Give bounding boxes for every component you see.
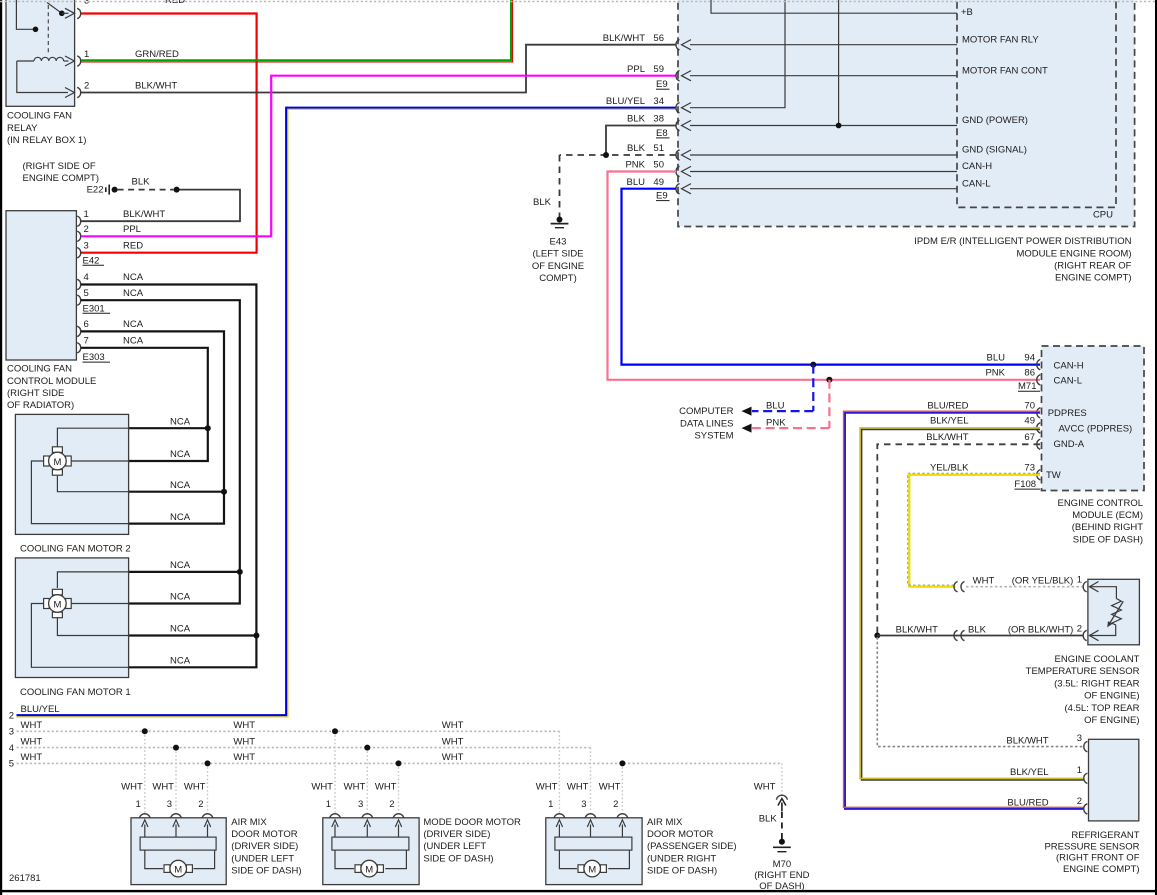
svg-text:CAN-H: CAN-H xyxy=(1054,360,1084,371)
svg-text:E43: E43 xyxy=(550,236,567,247)
svg-text:NCA: NCA xyxy=(123,319,144,330)
wire GND (POWER) xyxy=(682,115,1028,131)
air mix passenger caption xyxy=(647,817,737,877)
relay pin 1 arc xyxy=(77,56,81,66)
svg-text:SIDE OF DASH): SIDE OF DASH) xyxy=(423,853,493,864)
svg-text:WHT: WHT xyxy=(442,736,464,747)
svg-text:(BEHIND RIGHT: (BEHIND RIGHT xyxy=(1072,522,1143,533)
svg-text:NCA: NCA xyxy=(170,480,191,491)
ECM pin 86 arc xyxy=(1037,375,1041,385)
svg-text:3: 3 xyxy=(9,727,14,738)
wire PPL module pin2 to IPDM pin59 xyxy=(81,76,676,237)
ECT pin 1 arc xyxy=(1083,582,1087,592)
svg-text:CONTROL MODULE: CONTROL MODULE xyxy=(7,376,96,387)
svg-text:(RIGHT FRONT OF: (RIGHT FRONT OF xyxy=(1056,853,1140,864)
svg-text:BLU: BLU xyxy=(766,401,785,412)
svg-text:WHT: WHT xyxy=(21,736,43,747)
wire BLK dashed to ground M70 xyxy=(781,812,783,840)
wire MOTOR FAN RLY xyxy=(682,34,1040,50)
svg-text:2: 2 xyxy=(613,799,618,810)
svg-text:PDPRES: PDPRES xyxy=(1048,408,1087,419)
svg-text:GND (POWER): GND (POWER) xyxy=(962,115,1028,126)
wire WHT drop row5 to air mix motor passenger pin2 xyxy=(621,763,623,812)
svg-text:M: M xyxy=(174,865,182,876)
ECT caption xyxy=(1026,654,1140,726)
connector E303 label xyxy=(83,352,111,363)
svg-text:WHT: WHT xyxy=(233,736,255,747)
wire BLK dashed from E22 xyxy=(118,189,174,191)
svg-text:(PASSENGER SIDE): (PASSENGER SIDE) xyxy=(647,841,737,852)
relay coil to pin2 wire xyxy=(17,61,75,98)
svg-text:1: 1 xyxy=(1077,574,1082,585)
svg-text:(OR YEL/BLK): (OR YEL/BLK) xyxy=(1012,575,1074,586)
svg-text:E42: E42 xyxy=(83,255,100,266)
svg-text:E9: E9 xyxy=(656,191,668,202)
svg-text:51: 51 xyxy=(653,143,664,154)
svg-text:1: 1 xyxy=(84,209,89,220)
motor2 internal wires xyxy=(31,428,128,523)
ECM pin number labels xyxy=(1024,352,1035,473)
connector F108 label xyxy=(1014,479,1040,490)
svg-text:COOLING FAN MOTOR 2: COOLING FAN MOTOR 2 xyxy=(20,544,131,555)
wire labels WHT above mode door motor xyxy=(311,781,396,792)
svg-text:BLK/YEL: BLK/YEL xyxy=(1010,767,1049,778)
page border right xyxy=(1155,0,1157,895)
svg-text:SIDE OF DASH): SIDE OF DASH) xyxy=(1073,534,1143,545)
svg-text:NCA: NCA xyxy=(123,288,144,299)
mode door motor pin arcs xyxy=(330,814,405,819)
svg-text:BLU/YEL: BLU/YEL xyxy=(21,704,60,715)
splice dot xyxy=(174,187,180,193)
svg-text:E9: E9 xyxy=(656,79,668,90)
svg-text:261781: 261781 xyxy=(9,873,41,884)
svg-text:GND-A: GND-A xyxy=(1054,439,1085,450)
wire BLU/RED ECM pin70 to refrigerant sensor pin2 xyxy=(844,411,1084,809)
svg-text:BLK/WHT: BLK/WHT xyxy=(135,81,177,92)
relay pin 3 arc xyxy=(77,8,81,18)
ground E43 symbol xyxy=(551,217,569,228)
air mix driver motor symbol xyxy=(164,860,192,877)
svg-text:WHT: WHT xyxy=(21,720,43,731)
air mix passenger resistor bar xyxy=(555,837,632,850)
mode door motor symbol xyxy=(355,860,383,877)
svg-text:NCA: NCA xyxy=(170,624,191,635)
IPDM pin number labels xyxy=(653,33,664,188)
wire PNK dashed to computer data lines xyxy=(828,380,830,428)
svg-text:ENGINE COMPT): ENGINE COMPT) xyxy=(1063,864,1140,875)
ground M70 symbol xyxy=(773,839,791,852)
svg-text:WHT: WHT xyxy=(21,752,43,763)
svg-text:6: 6 xyxy=(84,319,89,330)
svg-text:1: 1 xyxy=(326,799,331,810)
refrigerant pin 2 arc xyxy=(1084,804,1088,814)
svg-text:BLK: BLK xyxy=(968,625,987,636)
air mix driver motor wires xyxy=(145,850,163,869)
svg-text:AIR MIX: AIR MIX xyxy=(647,817,683,828)
svg-text:BLK/WHT: BLK/WHT xyxy=(123,209,165,220)
wire GND (SIGNAL) xyxy=(682,145,1027,161)
cooling fan motor 2 box xyxy=(15,414,128,534)
air mix passenger pin arcs xyxy=(554,814,628,819)
ECM box xyxy=(1042,346,1145,491)
wire WHT drop row3 to air mix motor driver pin1 xyxy=(144,731,146,812)
svg-text:M: M xyxy=(365,865,373,876)
relay switch contact wire xyxy=(16,0,38,32)
air mix door motor passenger box xyxy=(546,818,642,885)
motor1 internal wires xyxy=(31,572,128,667)
svg-text:50: 50 xyxy=(653,160,664,171)
junction dot xyxy=(396,760,402,766)
wire IPDM pin34 internal xyxy=(682,0,786,113)
connector E8 label xyxy=(656,128,670,139)
wire BLK/WHT dotted to refrigerant sensor pin3 xyxy=(877,637,1083,747)
svg-text:SIDE OF DASH): SIDE OF DASH) xyxy=(231,866,301,877)
svg-text:49: 49 xyxy=(1024,416,1035,427)
wire WHT drop row4 to air mix motor passenger pin3 xyxy=(590,748,592,813)
relay dashed actuator line xyxy=(47,5,49,53)
svg-text:OF ENGINE: OF ENGINE xyxy=(532,261,584,272)
svg-text:PNK: PNK xyxy=(766,418,786,429)
svg-text:ENGINE COMPT): ENGINE COMPT) xyxy=(23,173,100,184)
CPU box xyxy=(957,0,1116,207)
relay location caption xyxy=(23,161,100,184)
svg-text:(OR BLK/WHT): (OR BLK/WHT) xyxy=(1008,625,1073,636)
inline connector arcs at ECT pin1 wire xyxy=(954,582,965,592)
IPDM pin 34 arc xyxy=(676,103,680,113)
inline connector arcs at ECT pin2 wire xyxy=(954,630,965,640)
cooling fan motor 1 box xyxy=(15,558,128,678)
svg-text:5: 5 xyxy=(9,759,14,770)
NCA labels motor2 wires xyxy=(170,416,191,522)
wire BLU dashed to computer data lines xyxy=(812,365,814,412)
svg-text:E303: E303 xyxy=(83,352,105,363)
mode door motor box xyxy=(323,818,419,885)
wire CAN-L internal xyxy=(682,178,991,194)
svg-text:(RIGHT SIDE OF: (RIGHT SIDE OF xyxy=(23,161,96,172)
wire BLK dashed vertical to E43 xyxy=(559,155,561,218)
svg-text:49: 49 xyxy=(653,177,664,188)
module pin 2 arc xyxy=(77,231,81,241)
svg-text:1: 1 xyxy=(84,49,89,60)
svg-text:BLU: BLU xyxy=(627,177,646,188)
module pin 4 arc xyxy=(77,279,81,289)
wire BLU IPDM pin49 to ECM pin94 xyxy=(622,189,1041,365)
wire NCA module pin4 to fan motor1 xyxy=(81,285,256,668)
junction dot xyxy=(619,760,625,766)
E22 splice dot xyxy=(112,187,118,193)
IPDM pin 50 arc xyxy=(676,166,680,176)
svg-text:BLU/RED: BLU/RED xyxy=(1007,798,1048,809)
air mix driver pin arcs xyxy=(139,814,213,819)
ECM pin 73 arc xyxy=(1037,470,1041,480)
svg-text:2: 2 xyxy=(84,81,89,92)
ECM caption xyxy=(1057,498,1143,546)
wire NCA module pin5 to fan motor1 xyxy=(81,300,240,603)
svg-text:WHT: WHT xyxy=(536,781,558,792)
engine coolant temperature sensor box xyxy=(1088,579,1140,645)
branch to motor1 wire1 xyxy=(129,571,240,573)
svg-text:NCA: NCA xyxy=(170,449,191,460)
connector E9 label lower xyxy=(656,191,670,202)
svg-text:PRESSURE SENSOR: PRESSURE SENSOR xyxy=(1044,842,1139,853)
svg-text:AIR MIX: AIR MIX xyxy=(231,817,267,828)
page border left xyxy=(0,0,2,895)
svg-text:NCA: NCA xyxy=(170,560,191,571)
wire labels WHT above air mix motor driver xyxy=(121,781,206,792)
svg-text:F108: F108 xyxy=(1014,479,1036,490)
svg-text:59: 59 xyxy=(653,64,664,75)
svg-text:SIDE OF DASH): SIDE OF DASH) xyxy=(647,866,717,877)
svg-text:COOLING FAN MOTOR 1: COOLING FAN MOTOR 1 xyxy=(20,687,131,698)
module pin 3 arc xyxy=(77,248,81,258)
svg-text:NCA: NCA xyxy=(170,512,191,523)
page border bottom xyxy=(0,890,1157,892)
svg-text:M: M xyxy=(588,865,596,876)
svg-text:PNK: PNK xyxy=(625,160,645,171)
svg-text:OF ENGINE): OF ENGINE) xyxy=(1084,715,1139,726)
svg-text:BLK: BLK xyxy=(759,814,778,825)
svg-text:BLK/WHT: BLK/WHT xyxy=(926,432,968,443)
wire WHT row5 drop to M70 xyxy=(781,763,783,794)
arrow to computer data lines (BLU) xyxy=(742,407,752,416)
svg-text:3: 3 xyxy=(581,799,586,810)
ECM pin 67 arc xyxy=(1037,439,1041,449)
ECM wire name labels xyxy=(926,352,1005,473)
svg-text:2: 2 xyxy=(1077,796,1082,807)
module pin 5 arc xyxy=(77,295,81,305)
svg-text:CAN-H: CAN-H xyxy=(962,161,992,172)
svg-text:2: 2 xyxy=(1077,624,1082,635)
svg-text:DOOR MOTOR: DOOR MOTOR xyxy=(231,829,297,840)
IPDM E/R box xyxy=(678,0,1135,227)
relay switch blade xyxy=(47,3,74,19)
svg-text:BLK/YEL: BLK/YEL xyxy=(930,416,969,427)
svg-text:BLK/WHT: BLK/WHT xyxy=(896,625,938,636)
arrow to computer data lines (PNK) xyxy=(742,424,752,433)
junction dot xyxy=(836,123,842,129)
motor1 symbol xyxy=(44,589,72,617)
wire NCA module pin7 to fan motor2 xyxy=(81,348,208,461)
module pin labels xyxy=(84,209,89,347)
relay pin 2 arc xyxy=(77,87,81,97)
wire WHT drop row3 to air mix motor passenger pin1 xyxy=(558,731,560,812)
air mix passenger internal arrows xyxy=(556,820,625,837)
module pin 1 arc xyxy=(77,216,81,226)
junction dot xyxy=(237,569,243,575)
connector E301 label xyxy=(83,303,111,314)
refrigerant sensor wire labels pin3 xyxy=(1006,733,1082,746)
svg-text:YEL/BLK: YEL/BLK xyxy=(930,463,969,474)
svg-text:OF DASH): OF DASH) xyxy=(759,881,804,892)
branch to motor2 wire3 xyxy=(129,491,224,493)
module wire name labels xyxy=(123,209,165,347)
svg-text:WHT: WHT xyxy=(152,781,174,792)
junction dot xyxy=(173,745,179,751)
wire WHT drop row5 to mode door motor pin2 xyxy=(398,763,400,812)
wire WHT drop row4 to mode door motor pin3 xyxy=(366,748,368,813)
svg-text:MOTOR FAN CONT: MOTOR FAN CONT xyxy=(962,65,1048,76)
mode door motor caption xyxy=(423,817,521,865)
svg-text:(RIGHT REAR OF: (RIGHT REAR OF xyxy=(1054,261,1132,272)
air mix driver internal arrows xyxy=(142,820,211,837)
svg-text:2: 2 xyxy=(9,710,14,721)
svg-text:COOLING FAN: COOLING FAN xyxy=(7,364,72,375)
junction dot xyxy=(603,152,609,158)
junction dot xyxy=(874,633,880,639)
E22 connector symbol xyxy=(106,185,109,195)
svg-text:2: 2 xyxy=(198,799,203,810)
svg-text:4: 4 xyxy=(9,743,14,754)
ground E43 caption xyxy=(532,236,584,284)
junction dot xyxy=(364,745,370,751)
svg-text:WHT: WHT xyxy=(599,781,621,792)
svg-text:WHT: WHT xyxy=(567,781,589,792)
svg-text:WHT: WHT xyxy=(311,781,333,792)
svg-text:BLK/WHT: BLK/WHT xyxy=(1006,735,1048,746)
svg-text:WHT: WHT xyxy=(442,720,464,731)
wire RED relay pin3 to module pin3 xyxy=(81,14,257,253)
pin labels mode door motor xyxy=(326,799,395,810)
svg-text:1: 1 xyxy=(548,799,553,810)
svg-text:CPU: CPU xyxy=(1093,210,1113,221)
thermistor symbol xyxy=(1107,599,1123,628)
svg-text:MODULE ENGINE ROOM): MODULE ENGINE ROOM) xyxy=(1016,248,1131,259)
svg-text:RED: RED xyxy=(123,240,143,251)
air mix door motor driver box xyxy=(131,818,226,885)
wire CAN-H internal xyxy=(682,161,993,177)
svg-text:SYSTEM: SYSTEM xyxy=(694,431,733,442)
svg-text:(DRIVER SIDE): (DRIVER SIDE) xyxy=(231,841,298,852)
M70 inline connector symbol xyxy=(776,795,787,811)
wire BLK/WHT dashed ECM pin67 xyxy=(877,444,1040,634)
connector E42 label xyxy=(83,255,105,266)
refrigerant pin 1 arc xyxy=(1084,773,1088,783)
svg-text:TW: TW xyxy=(1046,470,1061,481)
svg-text:1: 1 xyxy=(1077,765,1082,776)
junction dot xyxy=(142,728,148,734)
wire WHT drop row5 to air mix motor driver pin2 xyxy=(207,763,209,812)
svg-text:OF ENGINE): OF ENGINE) xyxy=(1084,691,1139,702)
svg-text:MODE DOOR MOTOR: MODE DOOR MOTOR xyxy=(423,817,521,828)
svg-text:5: 5 xyxy=(84,288,89,299)
svg-text:86: 86 xyxy=(1024,368,1035,379)
svg-text:CAN-L: CAN-L xyxy=(1054,376,1083,387)
svg-text:70: 70 xyxy=(1024,401,1035,412)
module pin 6 arc xyxy=(77,326,81,336)
junction dot xyxy=(253,633,259,639)
svg-text:BLK: BLK xyxy=(627,114,646,125)
junction dot xyxy=(205,760,211,766)
svg-text:E8: E8 xyxy=(656,128,668,139)
air mix driver resistor bar xyxy=(140,837,216,850)
svg-text:CAN-L: CAN-L xyxy=(962,178,991,189)
svg-text:WHT: WHT xyxy=(442,752,464,763)
wire +B inside IPDM xyxy=(711,0,973,18)
ECM internal labels xyxy=(1046,360,1132,481)
svg-text:(DRIVER SIDE): (DRIVER SIDE) xyxy=(423,829,490,840)
svg-text:(IN RELAY BOX 1): (IN RELAY BOX 1) xyxy=(7,135,86,146)
svg-text:(3.5L: RIGHT REAR: (3.5L: RIGHT REAR xyxy=(1054,678,1139,689)
svg-text:WHT: WHT xyxy=(973,575,995,586)
branch to motor2 wire1 xyxy=(129,427,208,429)
wire GRN/RED relay pin1 going up xyxy=(81,0,513,62)
wire YEL/BLK ECM pin73 xyxy=(908,473,1040,587)
svg-text:PNK: PNK xyxy=(985,368,1005,379)
svg-text:TEMPERATURE SENSOR: TEMPERATURE SENSOR xyxy=(1026,666,1140,677)
wire WHT row4 xyxy=(17,747,591,749)
svg-text:COOLING FAN: COOLING FAN xyxy=(7,111,72,122)
svg-text:GRN/RED: GRN/RED xyxy=(135,49,179,60)
wire cut at very top (gray dotted) xyxy=(0,1,1157,3)
svg-text:WHT: WHT xyxy=(344,781,366,792)
wire BLK/WHT relay pin2 to IPDM pin56 xyxy=(81,45,676,93)
ground M70 caption xyxy=(754,859,809,892)
pin labels air mix motor passenger xyxy=(548,799,618,810)
NCA labels motor1 wires xyxy=(170,560,191,666)
svg-text:M70: M70 xyxy=(773,859,791,870)
branch to motor1 wire3 xyxy=(129,634,257,636)
cooling fan relay box xyxy=(6,0,75,106)
svg-text:COMPUTER: COMPUTER xyxy=(679,406,734,417)
pin labels air mix motor driver xyxy=(136,799,204,810)
wire BLU/YEL row2 to IPDM pin34 xyxy=(17,108,677,717)
ECT pin 2 arc xyxy=(1083,630,1087,640)
svg-text:2: 2 xyxy=(389,799,394,810)
IPDM pin 38 arc xyxy=(676,120,680,130)
ECM pin 49 arc xyxy=(1037,423,1041,433)
svg-text:34: 34 xyxy=(653,96,664,107)
mode door motor wires xyxy=(335,850,354,869)
svg-text:38: 38 xyxy=(653,114,664,125)
svg-text:RELAY: RELAY xyxy=(7,123,38,134)
wire WHT drop row3 to mode door motor pin1 xyxy=(334,731,336,812)
svg-text:(4.5L: TOP REAR: (4.5L: TOP REAR xyxy=(1065,703,1140,714)
refrigerant sensor wire labels pin2 xyxy=(1007,796,1082,809)
svg-text:ENGINE COMPT): ENGINE COMPT) xyxy=(1055,273,1132,284)
svg-text:ENGINE COOLANT: ENGINE COOLANT xyxy=(1055,654,1140,665)
svg-text:3: 3 xyxy=(167,799,172,810)
junction dot xyxy=(221,489,227,495)
svg-text:MODULE (ECM): MODULE (ECM) xyxy=(1072,510,1143,521)
svg-text:WHT: WHT xyxy=(233,752,255,763)
svg-text:E22: E22 xyxy=(87,184,104,195)
svg-text:E301: E301 xyxy=(83,303,105,314)
svg-text:4: 4 xyxy=(84,272,89,283)
svg-text:NCA: NCA xyxy=(170,592,191,603)
svg-text:BLU: BLU xyxy=(987,352,1006,363)
cooling fan relay caption xyxy=(7,111,86,146)
svg-text:M: M xyxy=(53,600,61,611)
svg-text:(RIGHT END: (RIGHT END xyxy=(754,870,809,881)
svg-text:73: 73 xyxy=(1024,463,1035,474)
svg-text:3: 3 xyxy=(84,240,89,251)
wire WHT drop row4 to air mix motor driver pin3 xyxy=(175,748,177,813)
ECM pin 70 arc xyxy=(1037,408,1041,418)
svg-text:NCA: NCA xyxy=(123,272,144,283)
connector E9 label xyxy=(656,79,670,90)
motor2 symbol xyxy=(44,447,72,475)
svg-text:+B: +B xyxy=(961,7,973,18)
refrigerant pin 3 arc xyxy=(1084,741,1088,751)
junction dot xyxy=(332,728,338,734)
relay coil xyxy=(17,56,75,66)
svg-text:(RIGHT SIDE: (RIGHT SIDE xyxy=(7,388,64,399)
IPDM pin 49 arc xyxy=(676,184,680,194)
svg-text:56: 56 xyxy=(653,33,664,44)
wire MOTOR FAN CONT xyxy=(682,65,1049,81)
cooling fan control module box xyxy=(6,211,76,360)
svg-text:7: 7 xyxy=(84,336,89,347)
